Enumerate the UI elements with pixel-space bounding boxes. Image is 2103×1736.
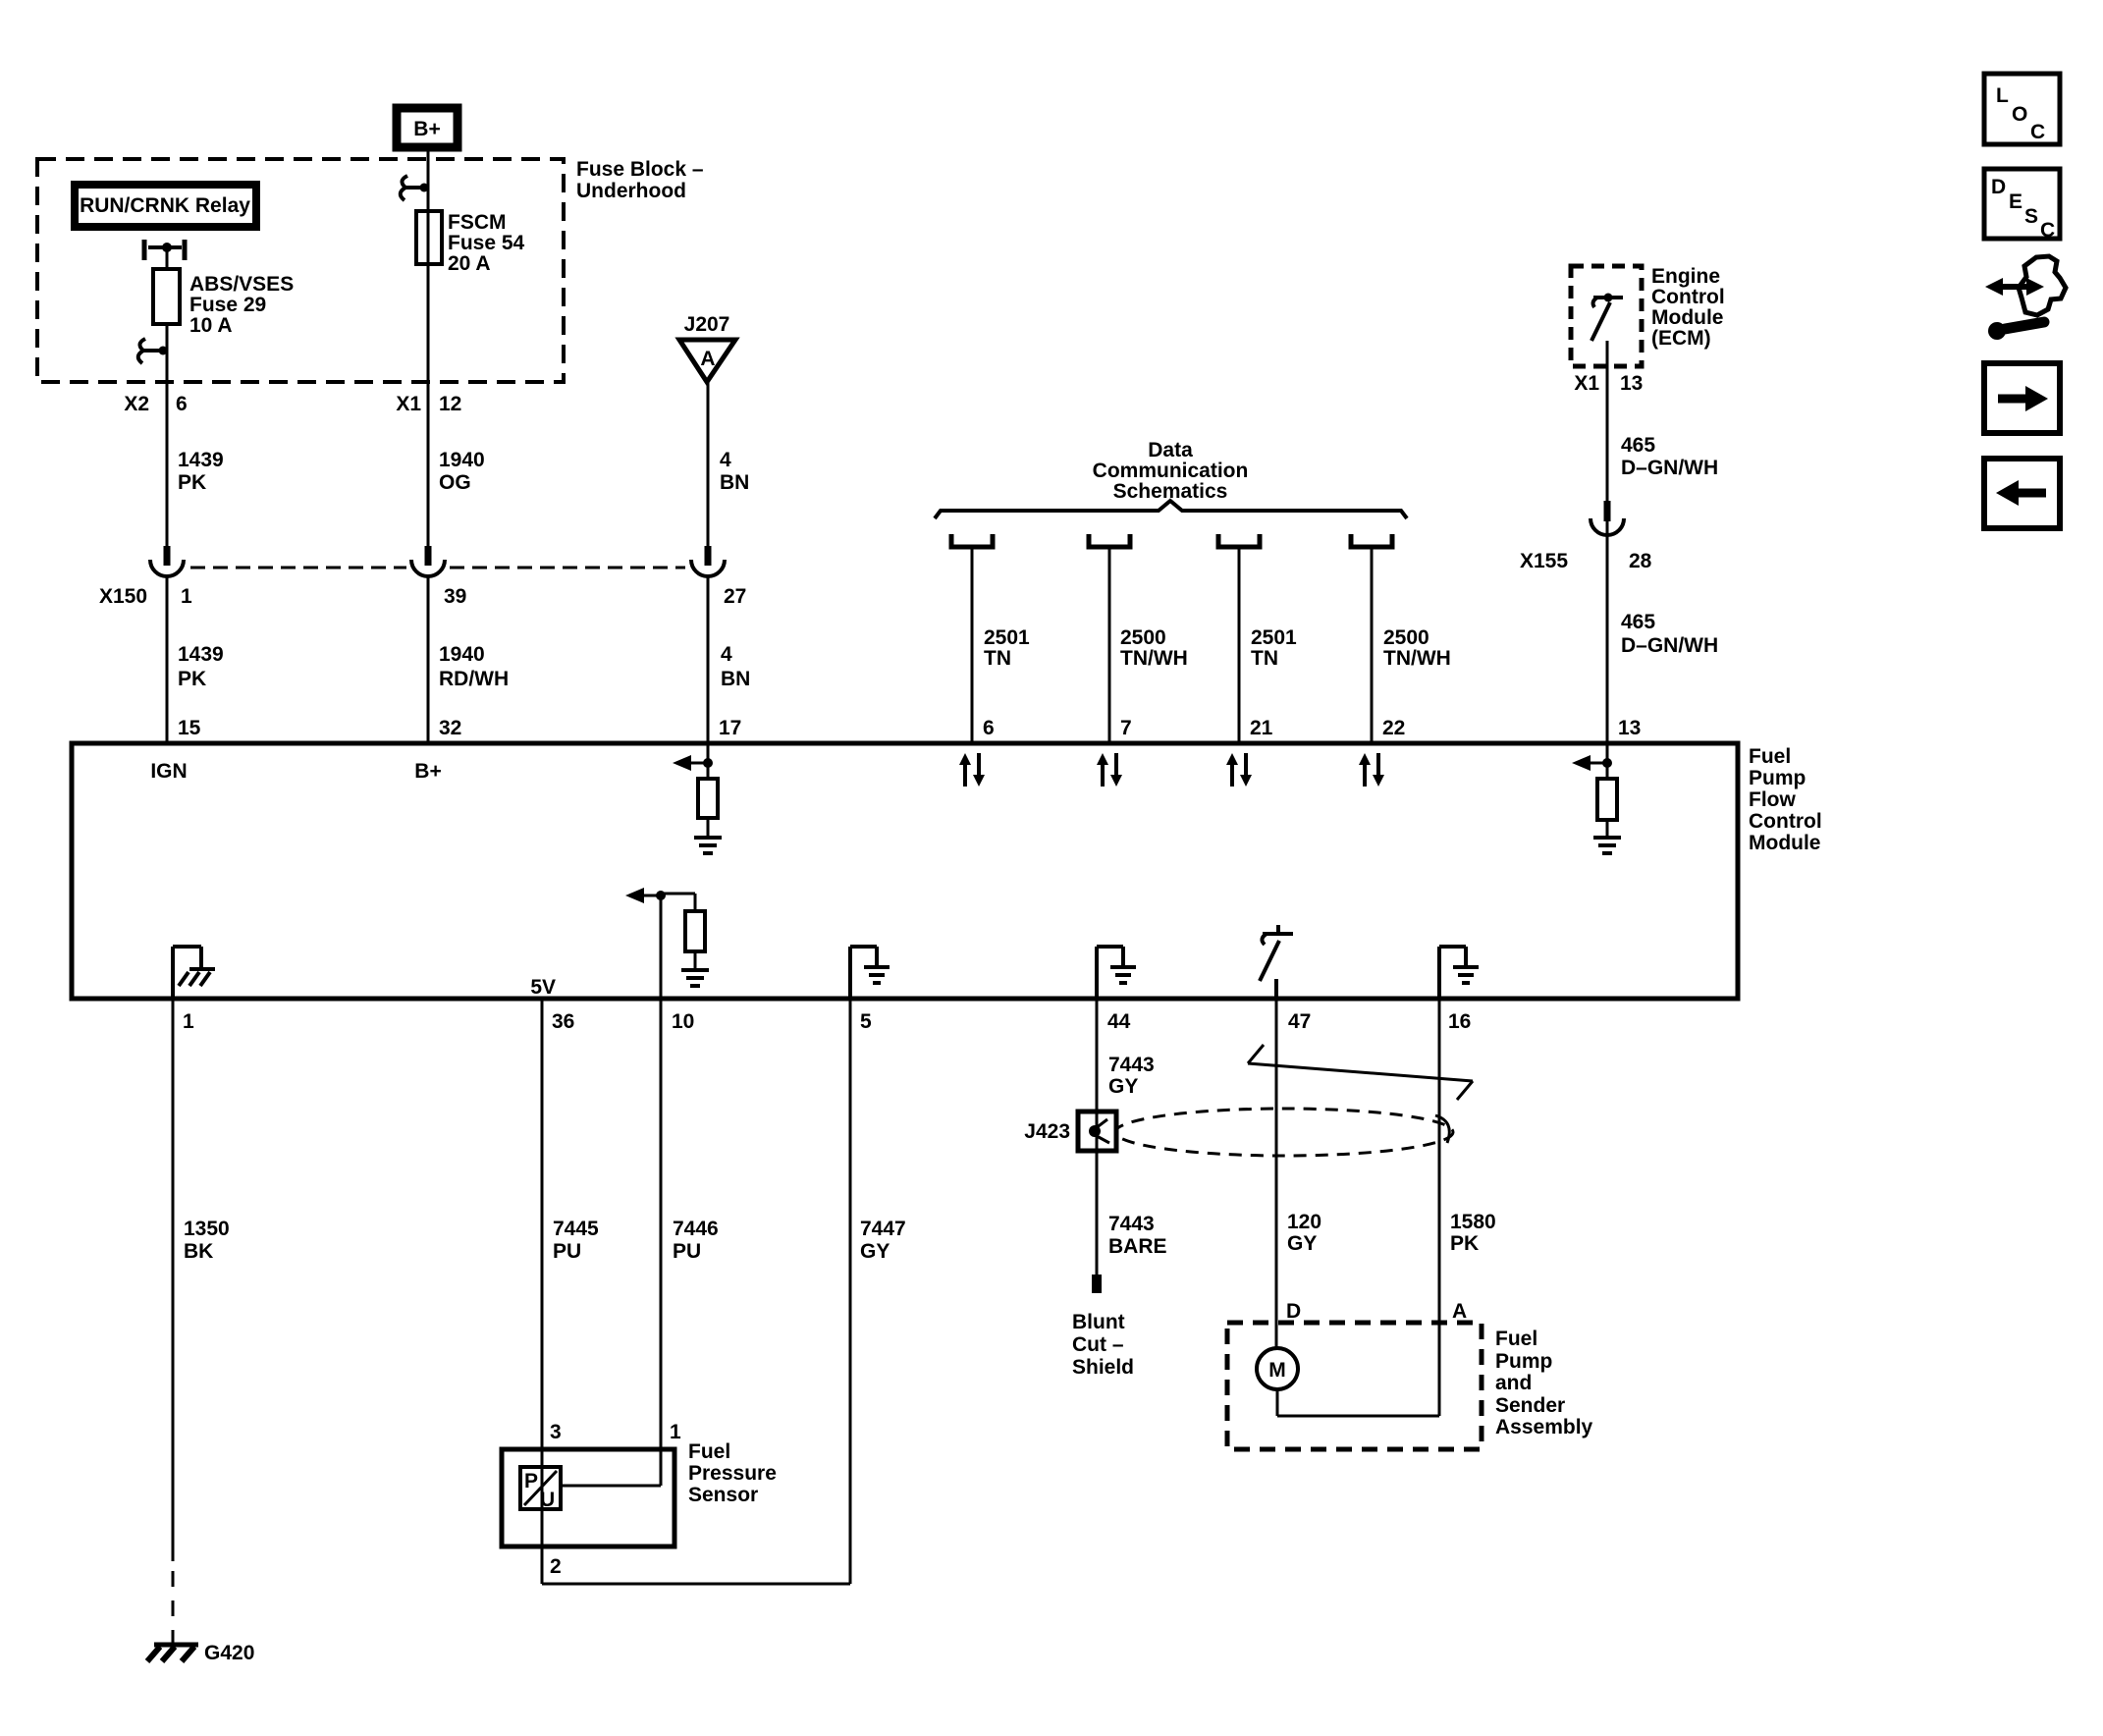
wire label 1439 PK upper bbox=[178, 449, 224, 494]
svg-text:3: 3 bbox=[550, 1421, 562, 1443]
svg-text:1: 1 bbox=[670, 1421, 681, 1443]
svg-text:28: 28 bbox=[1629, 550, 1652, 572]
connector X150 terminal pin 39 bbox=[411, 546, 445, 576]
svg-text:C: C bbox=[2030, 121, 2045, 143]
relay contact terminals bbox=[144, 240, 185, 260]
terminal clip on fuse 29 output bbox=[138, 339, 168, 363]
svg-text:7445: 7445 bbox=[553, 1218, 599, 1240]
svg-text:10 A: 10 A bbox=[189, 314, 233, 337]
pin 10 internal 5V pull-up arrow node bbox=[625, 888, 695, 911]
twisted pair arrow bbox=[1248, 1045, 1473, 1100]
serial data arrows pin 22 bbox=[1359, 753, 1384, 787]
label Fuel Pump Flow Control Module bbox=[1749, 745, 1822, 854]
resistor internal at pin 17 bbox=[698, 779, 718, 818]
svg-text:X1: X1 bbox=[1574, 372, 1599, 395]
svg-text:(ECM): (ECM) bbox=[1651, 327, 1711, 350]
label X155 pin 28 bbox=[1520, 550, 1652, 572]
svg-text:4: 4 bbox=[720, 449, 731, 471]
wire J207 down bbox=[707, 382, 710, 548]
svg-text:Data: Data bbox=[1148, 439, 1193, 461]
terminal clip on fuse 54 input bbox=[401, 176, 429, 200]
svg-text:465: 465 bbox=[1621, 611, 1655, 633]
svg-text:D–GN/WH: D–GN/WH bbox=[1621, 457, 1718, 479]
svg-text:E: E bbox=[2009, 190, 2022, 213]
svg-text:12: 12 bbox=[439, 393, 461, 415]
svg-text:TN: TN bbox=[984, 647, 1011, 670]
svg-text:X150: X150 bbox=[99, 585, 147, 608]
wire 7446 PU pin 10 to sensor bbox=[660, 999, 663, 1486]
splice J207 triangle bbox=[679, 313, 735, 382]
svg-text:X155: X155 bbox=[1520, 550, 1568, 572]
svg-text:GY: GY bbox=[1108, 1075, 1138, 1098]
svg-text:120: 120 bbox=[1287, 1211, 1321, 1233]
svg-text:Pump: Pump bbox=[1749, 767, 1806, 789]
data bus connector stub pin 6 bbox=[951, 534, 993, 547]
svg-text:16: 16 bbox=[1448, 1010, 1471, 1033]
svg-text:PK: PK bbox=[1450, 1232, 1479, 1255]
svg-text:TN/WH: TN/WH bbox=[1120, 647, 1188, 670]
wire relay to fuse 29 bbox=[166, 247, 169, 269]
wire label 7443 BARE bbox=[1108, 1213, 1167, 1258]
pin 5 internal ground bbox=[850, 947, 890, 999]
wire label 465 D-GN/WH upper bbox=[1621, 434, 1718, 479]
svg-text:7443: 7443 bbox=[1108, 1213, 1155, 1235]
switch inside ECM bbox=[1591, 294, 1623, 342]
serial data arrows pin 6 bbox=[959, 753, 985, 787]
svg-text:Pump: Pump bbox=[1495, 1350, 1552, 1373]
svg-text:FSCM: FSCM bbox=[448, 211, 507, 234]
transducer P/U symbol bbox=[520, 1467, 561, 1511]
wire 7445 PU pin 36 to sensor bbox=[541, 999, 544, 1509]
svg-text:Sensor: Sensor bbox=[688, 1484, 758, 1506]
svg-text:OG: OG bbox=[439, 471, 471, 494]
svg-text:15: 15 bbox=[178, 717, 201, 739]
svg-text:RUN/CRNK Relay: RUN/CRNK Relay bbox=[80, 194, 250, 217]
serial data arrows pin 7 bbox=[1097, 753, 1122, 787]
label Fuel Pressure Sensor bbox=[688, 1440, 777, 1506]
svg-text:Fuse Block –: Fuse Block – bbox=[576, 158, 704, 181]
label Fuse Block Underhood bbox=[576, 158, 704, 202]
wire data 2501 TN to pin 6 bbox=[971, 547, 974, 743]
blunt cut end bbox=[1092, 1275, 1102, 1293]
icon LOC button bbox=[1984, 74, 2060, 144]
svg-text:TN: TN bbox=[1251, 647, 1278, 670]
fuse block underhood dashed box bbox=[37, 159, 564, 382]
svg-text:C: C bbox=[2040, 219, 2055, 242]
svg-text:Cut –: Cut – bbox=[1072, 1333, 1124, 1356]
pin 1 internal chassis ground bbox=[173, 947, 215, 999]
serial data arrows pin 21 bbox=[1226, 753, 1252, 787]
wire label 2501 TN second bbox=[1251, 626, 1297, 670]
label X150 and pins 1 39 27 bbox=[99, 585, 746, 608]
svg-text:5: 5 bbox=[860, 1010, 872, 1033]
svg-text:BN: BN bbox=[720, 471, 749, 494]
wire resistor to ground pin10 bbox=[694, 951, 697, 969]
svg-text:1: 1 bbox=[181, 585, 192, 608]
wire 1580 PK pin 16 to pump bbox=[1438, 999, 1441, 1416]
wire label 1940 RD/WH bbox=[439, 643, 509, 690]
svg-text:GY: GY bbox=[860, 1240, 890, 1263]
svg-text:Fuel: Fuel bbox=[688, 1440, 730, 1463]
svg-text:13: 13 bbox=[1620, 372, 1643, 395]
svg-text:2501: 2501 bbox=[1251, 626, 1297, 649]
svg-text:39: 39 bbox=[444, 585, 466, 608]
svg-text:ABS/VSES: ABS/VSES bbox=[189, 273, 294, 296]
wire 1350 BK dashed tail bbox=[172, 1571, 175, 1644]
wire label 1580 PK bbox=[1450, 1211, 1496, 1255]
svg-text:IGN: IGN bbox=[150, 760, 187, 783]
svg-text:Sender: Sender bbox=[1495, 1394, 1565, 1417]
svg-text:44: 44 bbox=[1107, 1010, 1131, 1033]
wire label 2500 TN/WH second bbox=[1383, 626, 1451, 670]
svg-text:M: M bbox=[1268, 1359, 1286, 1382]
svg-text:2500: 2500 bbox=[1120, 626, 1166, 649]
svg-text:BARE: BARE bbox=[1108, 1235, 1167, 1258]
wire resistor to ground pin17 bbox=[707, 818, 710, 837]
wire 120 GY pin 47 to pump bbox=[1275, 999, 1278, 1349]
wire fuse 29 down bbox=[166, 324, 169, 548]
svg-text:Module: Module bbox=[1749, 832, 1821, 854]
svg-text:Fuel: Fuel bbox=[1495, 1328, 1537, 1350]
svg-text:RD/WH: RD/WH bbox=[439, 668, 509, 690]
wire resistor to ground pin13 bbox=[1606, 820, 1609, 837]
svg-text:P: P bbox=[524, 1470, 538, 1492]
wire sensor pin 1 to transducer bbox=[561, 1485, 661, 1488]
relay K RUN/CRNK Relay label box bbox=[75, 185, 256, 227]
svg-text:22: 22 bbox=[1382, 717, 1405, 739]
svg-text:D: D bbox=[1991, 176, 2006, 198]
shield dashed ellipse bbox=[1115, 1109, 1453, 1156]
wire label 2501 TN first bbox=[984, 626, 1030, 670]
wire data 2500 TN/WH to pin 22 bbox=[1371, 547, 1374, 743]
wire 7447 GY pin 5 to sensor low ref bbox=[849, 999, 852, 1584]
svg-text:21: 21 bbox=[1250, 717, 1273, 739]
ground internal at pin 10 bbox=[681, 970, 709, 986]
data bus connector stub pin 21 bbox=[1218, 534, 1260, 547]
ground internal at pin 13 bbox=[1593, 838, 1621, 853]
svg-text:1350: 1350 bbox=[184, 1218, 230, 1240]
svg-text:L: L bbox=[1996, 84, 2009, 107]
sensor B Fuel Pressure Sensor box bbox=[502, 1449, 674, 1546]
svg-text:7443: 7443 bbox=[1108, 1054, 1155, 1076]
wire pin10 node down bbox=[660, 895, 663, 999]
splice J423 box bbox=[1078, 1112, 1116, 1151]
svg-text:1439: 1439 bbox=[178, 643, 224, 666]
wire pin27 X150 to module pin 17 bbox=[707, 576, 710, 743]
ground internal at pin 17 bbox=[694, 838, 722, 853]
svg-text:17: 17 bbox=[719, 717, 741, 739]
connector label X1 pin 12 bbox=[396, 393, 461, 415]
svg-text:A: A bbox=[1452, 1300, 1467, 1323]
svg-text:10: 10 bbox=[672, 1010, 694, 1033]
label Engine Control Module (ECM) bbox=[1651, 265, 1725, 350]
wire pump return to pin A bbox=[1277, 1415, 1439, 1418]
label Fuel Pump and Sender Assembly bbox=[1495, 1328, 1593, 1438]
svg-text:13: 13 bbox=[1618, 717, 1641, 739]
svg-text:1940: 1940 bbox=[439, 449, 485, 471]
connector label X2 pin 6 bbox=[124, 393, 187, 415]
svg-text:47: 47 bbox=[1288, 1010, 1311, 1033]
svg-text:2501: 2501 bbox=[984, 626, 1030, 649]
svg-text:7447: 7447 bbox=[860, 1218, 906, 1240]
svg-text:Fuse 54: Fuse 54 bbox=[448, 232, 525, 254]
wire label 7447 GY bbox=[860, 1218, 906, 1263]
svg-text:PK: PK bbox=[178, 668, 206, 690]
svg-text:Communication: Communication bbox=[1093, 460, 1249, 482]
icon DESC button bbox=[1984, 169, 2060, 242]
wire label 7443 GY bbox=[1108, 1054, 1155, 1098]
resistor internal at pin 13 bbox=[1597, 779, 1617, 820]
motor M fuel pump bbox=[1257, 1348, 1298, 1389]
pin 13 internal pull-up arrow bbox=[1572, 743, 1612, 779]
svg-text:BN: BN bbox=[721, 668, 750, 690]
icon forward arrow button bbox=[1984, 363, 2060, 433]
icon swap with wrench bbox=[1985, 256, 2066, 340]
svg-text:Flow: Flow bbox=[1749, 788, 1796, 811]
wire label 7446 PU bbox=[673, 1218, 719, 1263]
connector label X1 pin 13 ECM bbox=[1574, 372, 1643, 395]
svg-text:Underhood: Underhood bbox=[576, 180, 686, 202]
wire sensor return to 7447 bbox=[542, 1583, 850, 1586]
wire label 1940 OG bbox=[439, 449, 485, 494]
wire motor to pump return bbox=[1276, 1389, 1279, 1416]
svg-text:27: 27 bbox=[724, 585, 746, 608]
brace for data communication bbox=[935, 501, 1407, 518]
svg-text:465: 465 bbox=[1621, 434, 1655, 457]
svg-text:Engine: Engine bbox=[1651, 265, 1720, 288]
pin 44 internal ground bbox=[1097, 947, 1136, 999]
fuse F29 ABS/VSES body bbox=[153, 269, 180, 324]
svg-text:4: 4 bbox=[721, 643, 732, 666]
ground G420 chassis symbol bbox=[147, 1645, 198, 1661]
svg-text:PU: PU bbox=[673, 1240, 701, 1263]
resistor internal at pin 10 bbox=[685, 911, 705, 951]
wire data 2500 TN/WH to pin 7 bbox=[1108, 547, 1111, 743]
label ABS/VSES Fuse 29 10 A bbox=[189, 273, 294, 337]
wire label 2500 TN/WH first bbox=[1120, 626, 1188, 670]
svg-text:2500: 2500 bbox=[1383, 626, 1429, 649]
wire X155 to module pin 13 bbox=[1606, 535, 1609, 743]
svg-text:G420: G420 bbox=[204, 1642, 254, 1664]
svg-text:O: O bbox=[2012, 103, 2027, 126]
wire 7443 GY pin 44 to J423 bbox=[1096, 999, 1099, 1275]
fuse F54 FSCM body bbox=[416, 211, 442, 264]
svg-text:PK: PK bbox=[178, 471, 206, 494]
svg-text:1940: 1940 bbox=[439, 643, 485, 666]
svg-text:Fuse 29: Fuse 29 bbox=[189, 294, 266, 316]
pin 16 internal ground bbox=[1439, 947, 1479, 999]
connector X155 terminal bbox=[1591, 501, 1624, 535]
wire pin1 X150 to module pin 15 bbox=[166, 576, 169, 743]
svg-text:Module: Module bbox=[1651, 306, 1724, 329]
wire label 1439 PK lower bbox=[178, 643, 224, 690]
svg-text:20 A: 20 A bbox=[448, 252, 491, 275]
svg-text:32: 32 bbox=[439, 717, 461, 739]
svg-text:7: 7 bbox=[1120, 717, 1132, 739]
svg-text:A: A bbox=[700, 348, 715, 370]
wire ECM switch to X155 bbox=[1606, 341, 1609, 546]
wire label 7445 PU bbox=[553, 1218, 599, 1263]
svg-text:D–GN/WH: D–GN/WH bbox=[1621, 634, 1718, 657]
shield ellipse end hook bbox=[1435, 1115, 1449, 1143]
svg-text:U: U bbox=[540, 1489, 555, 1511]
svg-text:TN/WH: TN/WH bbox=[1383, 647, 1451, 670]
wire pin39 X150 to module pin 32 bbox=[427, 576, 430, 743]
connector X150 dashed line bbox=[190, 567, 685, 570]
svg-text:2: 2 bbox=[550, 1555, 562, 1578]
power feed B+ box bbox=[397, 108, 458, 147]
svg-text:GY: GY bbox=[1287, 1232, 1317, 1255]
fuel pump assembly dashed box bbox=[1227, 1323, 1482, 1449]
wire transducer to sensor pin 2 bbox=[541, 1509, 544, 1584]
data bus connector stub pin 22 bbox=[1351, 534, 1392, 547]
module U Fuel Pump Flow Control Module box bbox=[72, 743, 1738, 999]
wire label 465 D-GN/WH lower bbox=[1621, 611, 1718, 657]
svg-text:B+: B+ bbox=[413, 118, 440, 140]
svg-text:7446: 7446 bbox=[673, 1218, 719, 1240]
svg-text:X2: X2 bbox=[124, 393, 149, 415]
svg-text:5V: 5V bbox=[530, 976, 556, 999]
svg-text:J207: J207 bbox=[684, 313, 730, 336]
svg-text:6: 6 bbox=[983, 717, 995, 739]
svg-text:S: S bbox=[2024, 205, 2038, 228]
wire label 4 BN upper bbox=[720, 449, 749, 494]
data bus connector stub pin 7 bbox=[1089, 534, 1130, 547]
svg-text:Blunt: Blunt bbox=[1072, 1311, 1125, 1333]
svg-text:Control: Control bbox=[1651, 286, 1725, 308]
pin 47 internal switch bbox=[1260, 925, 1293, 999]
connector X150 terminal pin 27 bbox=[691, 546, 725, 576]
label FSCM Fuse 54 20 A bbox=[448, 211, 525, 275]
svg-text:1: 1 bbox=[183, 1010, 194, 1033]
svg-text:D: D bbox=[1286, 1300, 1301, 1323]
svg-text:36: 36 bbox=[552, 1010, 574, 1033]
svg-text:BK: BK bbox=[184, 1240, 213, 1263]
wire B+ down through fuse 54 bbox=[427, 147, 430, 548]
svg-text:Control: Control bbox=[1749, 810, 1822, 833]
svg-text:6: 6 bbox=[176, 393, 188, 415]
label Blunt Cut Shield bbox=[1072, 1311, 1134, 1379]
connector X150 terminal pin 1 bbox=[150, 546, 184, 576]
svg-text:and: and bbox=[1495, 1372, 1532, 1394]
svg-text:B+: B+ bbox=[414, 760, 441, 783]
svg-text:PU: PU bbox=[553, 1240, 581, 1263]
ECM dashed box bbox=[1571, 266, 1642, 366]
wire label 120 GY bbox=[1287, 1211, 1321, 1255]
svg-text:1580: 1580 bbox=[1450, 1211, 1496, 1233]
svg-text:1439: 1439 bbox=[178, 449, 224, 471]
wire label 4 BN lower bbox=[721, 643, 750, 690]
wire 1350 BK pin 1 to G420 bbox=[172, 999, 175, 1561]
svg-text:Shield: Shield bbox=[1072, 1356, 1134, 1379]
svg-text:Assembly: Assembly bbox=[1495, 1416, 1593, 1438]
svg-text:Fuel: Fuel bbox=[1749, 745, 1791, 768]
wire label 1350 BK bbox=[184, 1218, 230, 1263]
svg-text:J423: J423 bbox=[1024, 1120, 1070, 1143]
svg-text:X1: X1 bbox=[396, 393, 421, 415]
svg-text:Pressure: Pressure bbox=[688, 1462, 777, 1485]
icon back arrow button bbox=[1984, 459, 2060, 528]
wire data 2501 TN to pin 21 bbox=[1238, 547, 1241, 743]
label Data Communication Schematics bbox=[1093, 439, 1249, 503]
pin 17 internal pull-up arrow bbox=[673, 743, 713, 779]
